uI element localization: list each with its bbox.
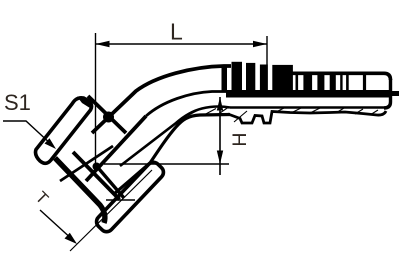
nut back inner line bbox=[73, 152, 120, 200]
svg-text:H: H bbox=[229, 133, 251, 147]
dimension L: extension line left bbox=[95, 33, 97, 167]
hatch between C and D at elbow outlet bbox=[188, 108, 247, 123]
serrated ferrule: tall teeth group bbox=[222, 62, 293, 92]
nut back face line bbox=[55, 158, 105, 223]
leader S1 bbox=[3, 121, 52, 145]
dimension H: line bbox=[219, 97, 221, 175]
vertical line on smooth stem bbox=[363, 74, 366, 90]
stem nub past end bbox=[390, 91, 399, 96]
nut lower-right strip bbox=[94, 160, 166, 235]
cone face line 2 bbox=[97, 166, 125, 198]
tube curve A (outer top wall) bbox=[92, 66, 231, 133]
tube curve B tail bbox=[86, 116, 146, 181]
nut upper-left flat strip bbox=[36, 98, 92, 164]
dimension H: top arrow bbox=[217, 97, 223, 111]
hatch ticks above bottom profile bbox=[276, 107, 378, 115]
dimension H: bottom arrow bbox=[217, 151, 223, 165]
tube curve D (bottom wall) bbox=[114, 115, 230, 195]
tube curve B (second wall) bbox=[146, 92, 228, 117]
dimension L: line bbox=[96, 43, 268, 45]
svg-text:S1: S1 bbox=[4, 90, 31, 115]
dimension T: arrowhead bbox=[65, 233, 78, 244]
svg-text:L: L bbox=[170, 18, 183, 44]
node: cap joint wedge bbox=[77, 97, 92, 110]
ferrule top rail bbox=[290, 73, 391, 80]
dimension T: extension line bbox=[70, 170, 152, 251]
stem mid band (thick) bbox=[226, 90, 390, 98]
node: seat crossing blob bbox=[103, 112, 114, 123]
dimension L: left arrow bbox=[96, 41, 110, 47]
node: junction blob bbox=[93, 163, 101, 171]
ferrule bottom wavy profile bbox=[228, 111, 386, 123]
nut mid flat line bbox=[60, 146, 113, 181]
stem right end cap bbox=[384, 79, 391, 108]
dimension T: line bbox=[40, 210, 74, 241]
short horizontal line in nut bbox=[106, 199, 135, 201]
dimension L: extension line right bbox=[266, 36, 268, 90]
dimension H: bottom reference line bbox=[104, 163, 229, 165]
leader S1 arrowhead bbox=[45, 138, 57, 149]
stem bottom bore line bbox=[230, 106, 386, 108]
dimension L: right arrow bbox=[253, 41, 267, 47]
cone face line 1 bbox=[88, 96, 126, 133]
tube curve C (bore line) bbox=[120, 107, 230, 166]
teeth group under rail bbox=[296, 74, 349, 91]
